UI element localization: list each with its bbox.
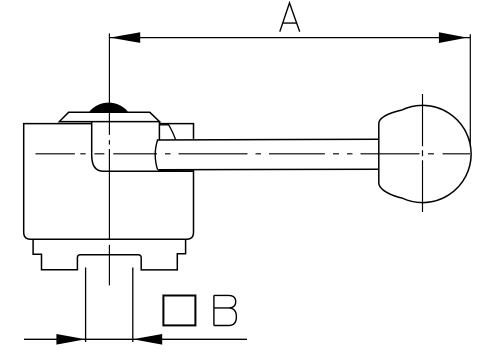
label A xyxy=(280,3,300,32)
cap washer xyxy=(59,112,159,121)
dome cap (filled) xyxy=(89,103,129,113)
lever hub xyxy=(92,121,194,171)
centerline screw axis (vertical, also dim A extension) xyxy=(108,33,110,285)
ball knob xyxy=(379,105,471,202)
label B xyxy=(214,295,237,325)
extension line stem left xyxy=(85,268,87,343)
extension line right (knob end) xyxy=(469,34,471,146)
dimension A line xyxy=(109,37,470,39)
dimension B line xyxy=(24,338,247,340)
arm bottom edge xyxy=(158,168,379,171)
centerline knob axis (vertical) xyxy=(422,94,424,212)
dimension B right arrow xyxy=(133,334,162,345)
hub-arm intersection curve xyxy=(159,125,175,140)
serrated flange base xyxy=(33,239,186,270)
square symbol xyxy=(163,296,195,326)
dimension A left arrow xyxy=(110,32,140,43)
extension line stem right xyxy=(132,268,134,343)
body clamp block xyxy=(24,124,194,240)
dimension B left arrow xyxy=(56,334,85,345)
arm near end arc xyxy=(155,140,157,170)
dimension A right arrow xyxy=(439,32,467,43)
arm top edge xyxy=(157,138,379,141)
centerline arm axis (horizontal) xyxy=(36,153,471,155)
